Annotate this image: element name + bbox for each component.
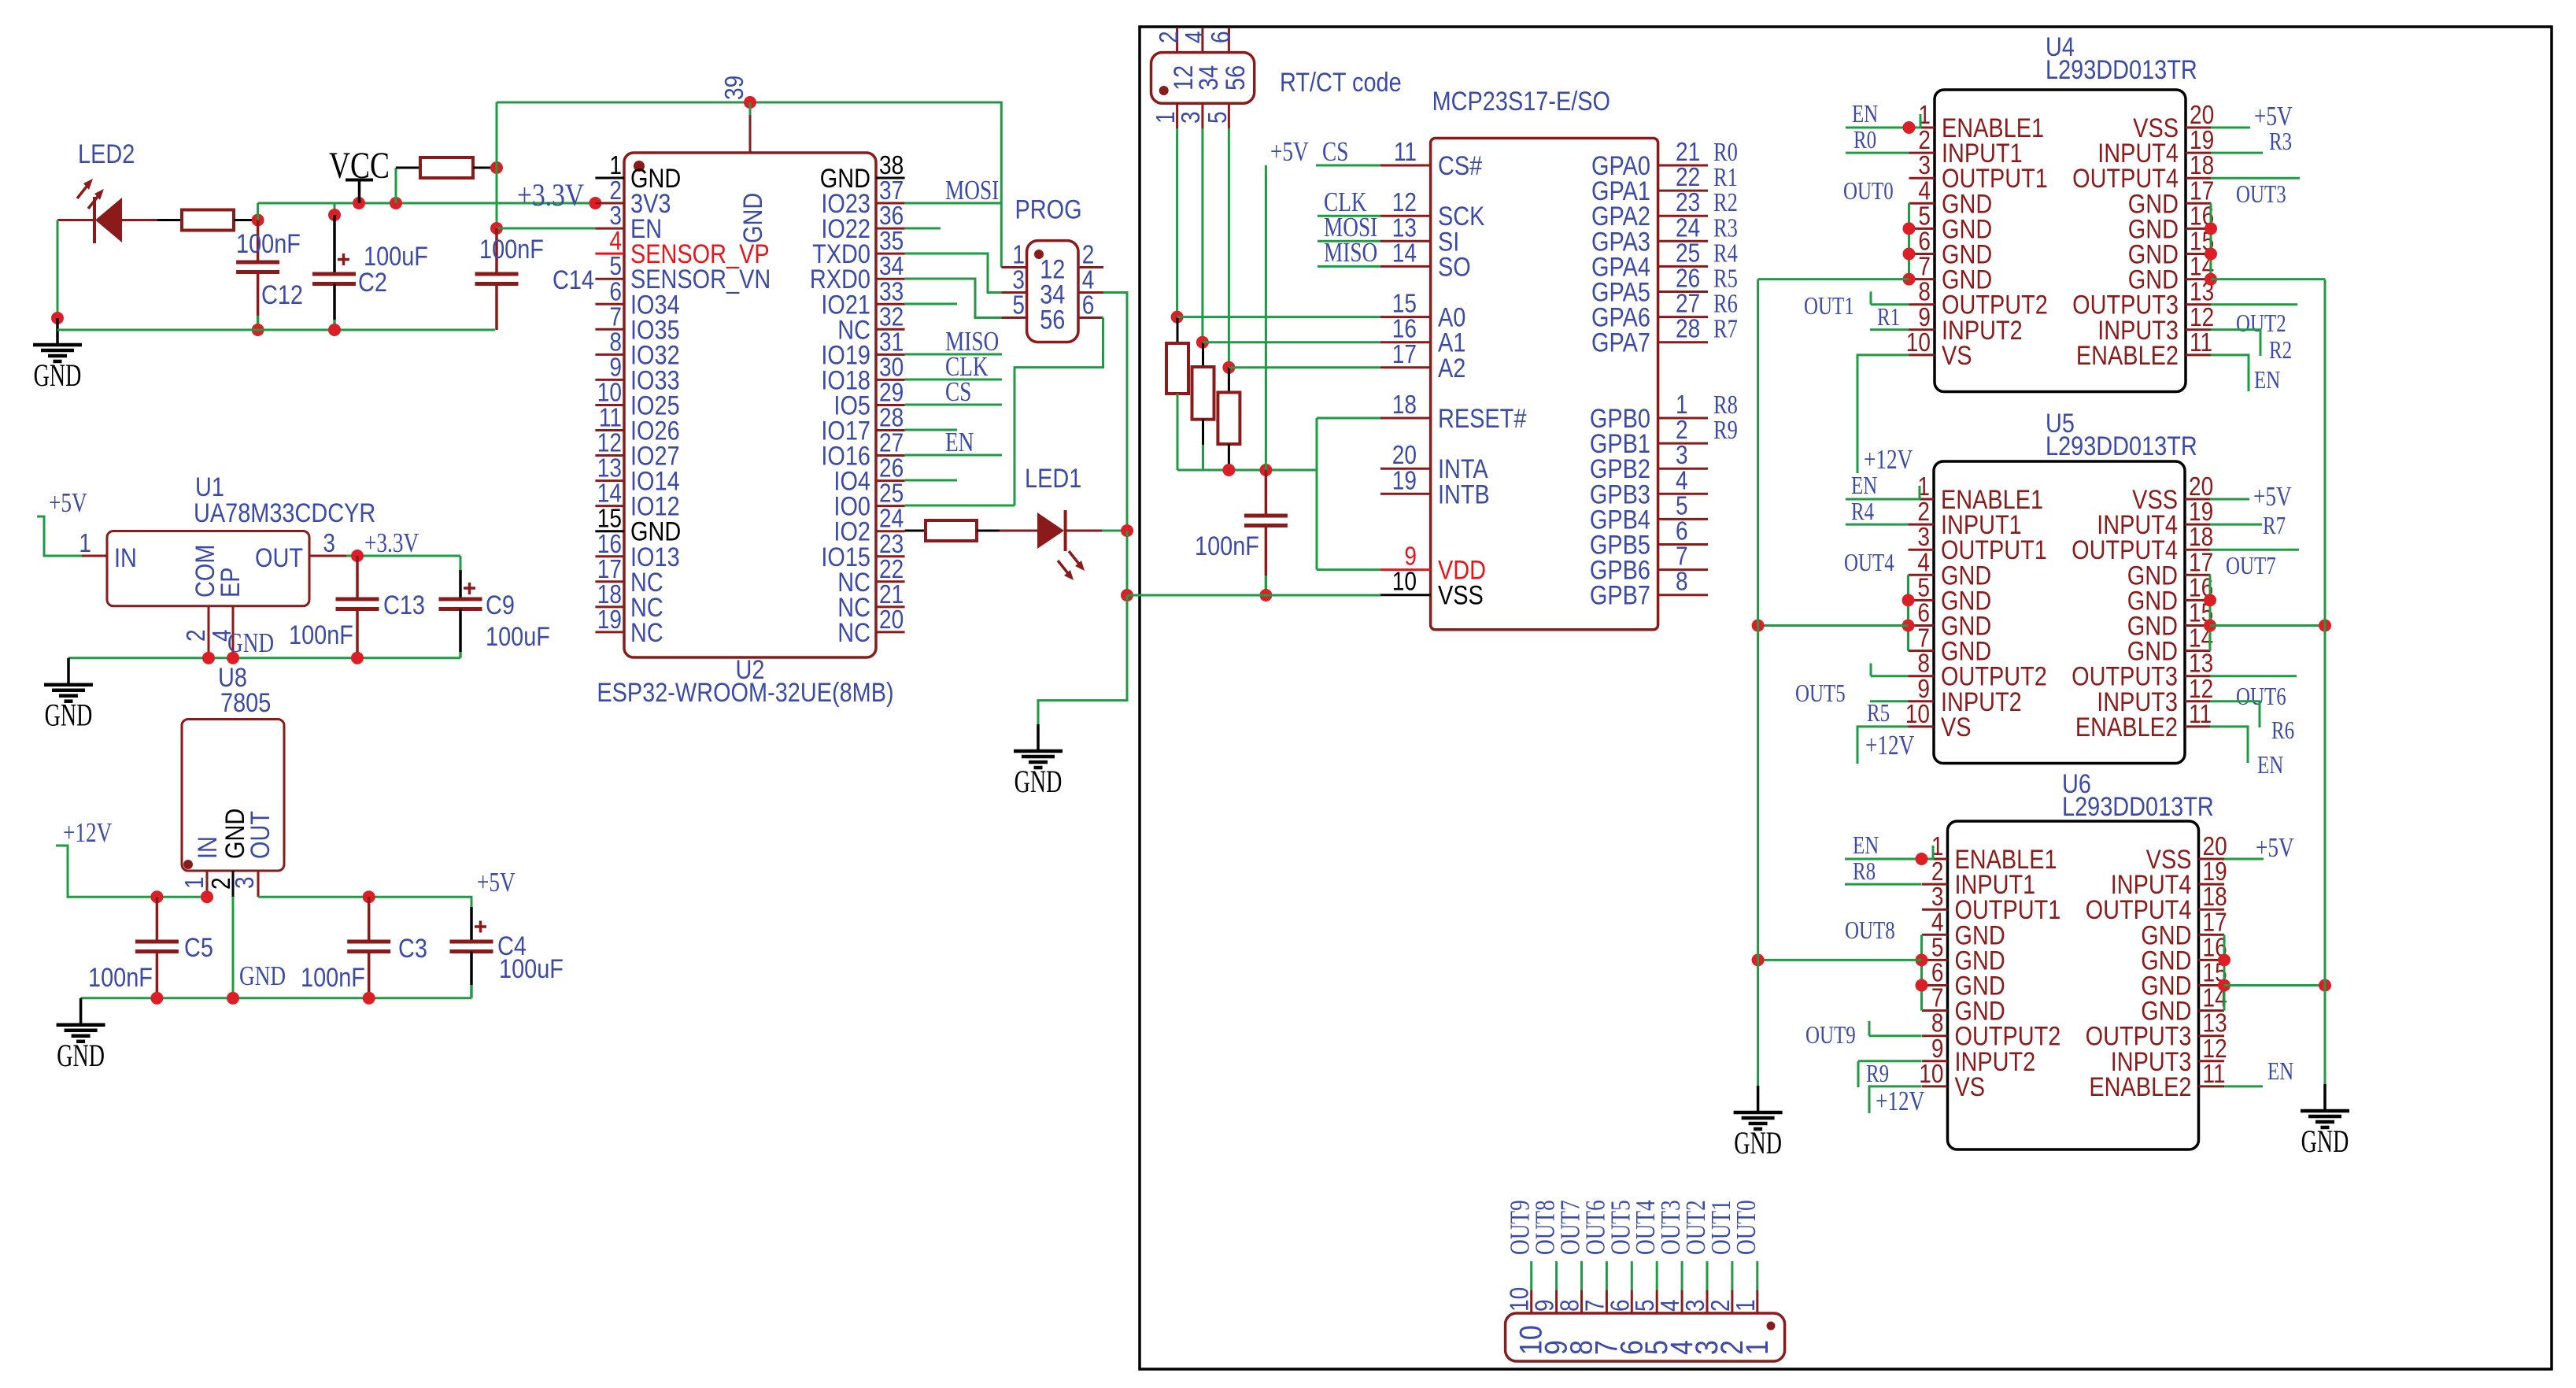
wire +5V vertical (1265, 165, 1267, 470)
U5 left pin names (1941, 484, 2047, 742)
svg-text:+12V: +12V (1876, 1086, 1925, 1116)
wire OUT1 to U4 pin8 (1871, 291, 1909, 304)
svg-text:GND: GND (1015, 764, 1063, 799)
svg-text:100nF: 100nF (1195, 531, 1259, 561)
wire LED2 cathode to resistor (122, 219, 182, 221)
svg-text:3: 3 (323, 529, 335, 558)
wire U6 ground pins 4-7 (1920, 935, 1923, 1010)
svg-text:L293DD013TR: L293DD013TR (2046, 431, 2197, 461)
IC U5 L293DD013TR body (1934, 461, 2185, 764)
svg-text:R0: R0 (1853, 126, 1876, 154)
wire OUT2 to U4 pin13 (2211, 303, 2297, 305)
wire A0 (1177, 316, 1380, 318)
U5 right pin names (2072, 484, 2178, 742)
svg-text:CS: CS (945, 376, 971, 407)
P1 pin numbers 2,4,6 (1155, 31, 1236, 43)
svg-text:+12V: +12V (63, 817, 113, 848)
wire R3 to U4 pin19 (2211, 152, 2263, 154)
U3 right pin numbers (1676, 138, 1700, 596)
U6 right pin names (2086, 844, 2192, 1102)
wire U5 gnd to right bus (2210, 624, 2325, 627)
P1 bottom pin stubs (1177, 103, 1229, 128)
wire +5V to U4 pin20 (VSS) (2211, 127, 2250, 129)
junction U4 pin14 (2205, 273, 2217, 286)
U3 right pin names GPA0-GPA7 GPB0-GPB7 (1590, 150, 1650, 610)
capacitor C9 wire (460, 556, 462, 599)
wire GND rail (left) (57, 329, 495, 331)
svg-text:C9: C9 (486, 590, 515, 620)
capacitor C5 (135, 897, 179, 998)
svg-text:10: 10 (1906, 328, 1931, 357)
capacitor C12 (236, 220, 279, 316)
wire R1 to U4 pin9 (1870, 328, 1909, 331)
U3 left pin names (1438, 150, 1527, 610)
wire R6 to U5 pin12 (2210, 701, 2260, 727)
wire VCC resistor to top net (473, 167, 497, 169)
junction VSS net (1121, 589, 1133, 601)
svg-text:GND: GND (1734, 1126, 1782, 1160)
junction A2/resistor (1222, 361, 1235, 374)
svg-text:LED2: LED2 (78, 139, 135, 169)
svg-text:EN: EN (1852, 100, 1879, 128)
wire EN to U4 pin11 (2211, 355, 2249, 391)
PROG pin1 marker (1034, 250, 1044, 259)
junction C2 to GND rail (328, 324, 341, 336)
wire U8 ground rail (81, 997, 471, 999)
capacitor C4 polarity + (475, 921, 486, 933)
connector P2 body (1506, 1313, 1785, 1361)
svg-text:5: 5 (1203, 111, 1233, 124)
capacitor C9 polarity + (464, 583, 475, 594)
svg-text:+5V: +5V (2253, 481, 2292, 512)
wire +5V to U5 pin20 (VSS) (2210, 498, 2249, 501)
wire top GND net horizontal (497, 102, 1001, 268)
PROG pad labels 12,34,56 (1040, 254, 1065, 335)
wire MISO (U2 pin31) (905, 353, 1002, 356)
svg-text:19: 19 (1392, 466, 1417, 495)
wire OUT6 to U5 pin13 (2210, 675, 2297, 677)
wire +12V to U4 pin10 (VS) (1857, 355, 1909, 473)
capacitor C13 (336, 556, 379, 658)
wire +12V to U5 pin10 (VS) (1857, 727, 1909, 764)
junction U6 pin15 (2218, 979, 2230, 992)
net labels R0-R7 (1713, 137, 1738, 344)
U3 left pin stubs (1380, 165, 1431, 595)
junction U6 pin16 (2218, 953, 2230, 966)
PROG left pin stubs (1001, 268, 1026, 318)
P2 pin1 marker (1767, 1322, 1776, 1331)
U4 right pin stubs (2186, 128, 2212, 355)
U4 right pin names (2072, 113, 2179, 371)
svg-text:VS: VS (1941, 712, 1972, 742)
svg-text:100uF: 100uF (499, 953, 564, 984)
svg-text:34: 34 (1193, 65, 1224, 91)
IC U6 L293DD013TR body (1948, 821, 2199, 1149)
wire node riser to +3.3V rail (257, 203, 259, 220)
wire MOSI to U3 pin13 (1318, 240, 1380, 242)
svg-text:20: 20 (879, 605, 904, 635)
svg-text:R2: R2 (2269, 336, 2292, 365)
LED D1 (LED1) diode symbol (1037, 510, 1085, 580)
wire R9 to U6 pin9 (1858, 1061, 1922, 1087)
junction U1 pin4 to rail (227, 652, 239, 664)
capacitor C4 (450, 907, 493, 998)
wire EN to U5 pin1 (1846, 486, 1920, 499)
P1 top pin stubs (1177, 28, 1229, 53)
junction U5 pin6 (1902, 620, 1915, 632)
wire U2 pin26 (905, 479, 957, 482)
LED D2 (LED2) diode symbol (77, 179, 122, 243)
svg-text:SO: SO (1438, 251, 1471, 282)
svg-text:ENABLE2: ENABLE2 (2076, 340, 2179, 371)
junction resistor/C12 node (252, 214, 264, 227)
svg-text:EP: EP (215, 567, 246, 598)
svg-text:10: 10 (1392, 568, 1417, 597)
svg-text:EN: EN (1851, 472, 1878, 500)
capacitor C3 (347, 897, 390, 998)
svg-text:+3.3V: +3.3V (364, 527, 419, 558)
svg-text:100nF: 100nF (88, 962, 153, 993)
svg-text:R1: R1 (1877, 303, 1900, 331)
wire R7 to U5 pin19 (2210, 524, 2262, 526)
svg-text:OUT9: OUT9 (1805, 1021, 1856, 1049)
svg-text:CS#: CS# (1438, 150, 1483, 181)
wire U2 pin28 (905, 429, 957, 431)
wire +5V to U6 pin20 (VSS) (2224, 858, 2264, 861)
wire CLK (U2 pin30) (905, 379, 1002, 381)
ground symbol (U1) (44, 658, 93, 733)
junction +5V/cap on bus (1259, 464, 1272, 476)
wire OUT9 to U6 pin8 (1869, 1021, 1922, 1036)
junction right bus at U5 (2319, 620, 2331, 632)
svg-text:VSS: VSS (1438, 579, 1484, 610)
wire EN (U2 pin27) (905, 454, 1002, 457)
svg-text:R8: R8 (1853, 857, 1876, 886)
svg-text:VS: VS (1955, 1072, 1986, 1102)
svg-text:100uF: 100uF (486, 621, 550, 652)
capacitor 100nF (MCP decoupling) (1244, 470, 1288, 576)
wire U4 gnd to left bus (1758, 278, 1909, 280)
U4 left pin names (1942, 113, 2048, 371)
U6 pin numbers 1-10 (1919, 832, 1943, 1089)
wire top GND net vertical (496, 102, 498, 228)
svg-text:CS: CS (1322, 136, 1348, 167)
U2 left pin stubs (595, 178, 624, 632)
svg-text:18: 18 (1392, 390, 1417, 420)
svg-text:OUT0: OUT0 (1843, 177, 1894, 205)
svg-text:11: 11 (2190, 328, 2212, 357)
wire U5 gnd to left bus (1758, 624, 1909, 627)
wire MOSI (U2 pin37) (905, 202, 1002, 205)
wire U6 gnd to left bus (1758, 959, 1922, 961)
U8 pin2 stub and wire to ground rail (232, 871, 235, 998)
svg-text:+5V: +5V (49, 487, 87, 518)
wire CS (U2 pin29) (905, 404, 1002, 406)
svg-text:R9: R9 (1713, 415, 1738, 445)
svg-text:7805: 7805 (220, 687, 271, 718)
svg-text:11: 11 (1394, 138, 1417, 167)
U5 left pin stubs (1909, 499, 1935, 727)
wire CLK to U3 pin12 (1318, 215, 1380, 217)
svg-text:EN: EN (945, 427, 974, 457)
U4 pin numbers 20-11 (2190, 101, 2214, 357)
svg-text:C3: C3 (398, 933, 427, 964)
junction U8 pin2 bottom (227, 992, 239, 1005)
junction U1 pin2 to rail (202, 652, 215, 664)
wire P1 pin3 to A1 (1201, 128, 1203, 342)
wire P1 pin1 to A0 (1176, 128, 1178, 316)
resistor (A2 pulldown) (1218, 368, 1240, 470)
wire U5 ground pins 4-7 (1907, 575, 1909, 650)
wire CS to U3 pin11 (1316, 165, 1380, 167)
wire R0 to U4 pin2 (1846, 152, 1909, 154)
U2 pin 39 stub (749, 102, 752, 153)
svg-text:VS: VS (1942, 340, 1972, 371)
junction C5 top (150, 890, 163, 903)
svg-text:28: 28 (1676, 315, 1700, 344)
U5 pin numbers 1-10 (1905, 472, 1930, 729)
svg-text:2: 2 (182, 629, 211, 642)
junction U6 pin5 (1916, 953, 1928, 966)
wire R2 to U4 pin12 (2211, 330, 2260, 356)
ground symbol (LED2) (33, 318, 82, 393)
svg-text:+5V: +5V (2254, 101, 2293, 131)
svg-text:C2: C2 (358, 267, 387, 298)
svg-text:GPB7: GPB7 (1590, 579, 1650, 610)
svg-text:100nF: 100nF (289, 620, 353, 650)
svg-text:11: 11 (2189, 700, 2212, 729)
U5 right pin stubs (2185, 499, 2211, 727)
wire OUT7 to U5 pin18 (2210, 549, 2299, 551)
wire +5V to U1 pin1 (37, 516, 107, 556)
U8 pin3 stub (257, 871, 260, 897)
junction LED1/PROG4 node (1121, 524, 1133, 537)
svg-text:6: 6 (1207, 31, 1236, 43)
wire IO0 U2 pin25 to PROG pin6 (905, 505, 1015, 507)
junction U4 pin1 (1903, 121, 1916, 134)
svg-text:GPA7: GPA7 (1591, 327, 1650, 357)
svg-text:6: 6 (1082, 291, 1095, 320)
junction U5 pin16 (2204, 594, 2216, 606)
PROG pin numbers 2,4,6 (1082, 240, 1095, 320)
net labels OUT9..OUT0 (P2) (1504, 1200, 1761, 1255)
U1 pins 2,4 stubs (209, 606, 233, 658)
svg-text:56: 56 (1220, 65, 1251, 91)
svg-text:OUT1: OUT1 (1804, 292, 1854, 320)
wire lead to VCC resistor (396, 167, 420, 169)
svg-text:1: 1 (1739, 1340, 1774, 1355)
svg-text:EN: EN (2254, 366, 2281, 394)
wire +5V output rail (258, 897, 471, 907)
svg-text:NC: NC (837, 617, 870, 648)
resistor (LED1 series) (926, 520, 977, 541)
svg-text:C12: C12 (261, 279, 303, 310)
svg-text:EN: EN (2267, 1057, 2294, 1086)
resistor (A1 pulldown) (1192, 342, 1214, 470)
wire U2 pin33 (905, 303, 957, 305)
junction C5 bottom (150, 992, 163, 1005)
svg-text:1: 1 (1732, 1299, 1761, 1312)
svg-text:5: 5 (1012, 291, 1025, 320)
resistor (A0 pulldown) (1166, 317, 1188, 470)
svg-text:MCP23S17-E/SO: MCP23S17-E/SO (1432, 86, 1610, 117)
junction at U2 pin2 (589, 197, 601, 209)
power flag VCC (329, 146, 390, 203)
wire resistor to node (234, 219, 258, 221)
svg-text:A2: A2 (1438, 353, 1465, 383)
junction resistor riser on +3.3V rail (390, 197, 402, 209)
capacitor C2 top wire (328, 203, 341, 274)
U6 pin numbers 20-11 (2203, 832, 2227, 1089)
junction left bus at U6 (1752, 953, 1765, 966)
svg-text:R5: R5 (1867, 699, 1890, 727)
junction U1 out / C13 (351, 550, 364, 562)
svg-text:OUT: OUT (255, 542, 303, 573)
svg-text:RESET#: RESET# (1438, 403, 1527, 434)
svg-text:R6: R6 (2271, 716, 2294, 745)
wire TXD0 U2 pin35 to PROG pin3 (905, 254, 1002, 293)
wire OUT5 to U5 pin8 (1871, 663, 1909, 675)
wire LED1 node down to VSS net (1126, 531, 1129, 595)
svg-text:56: 56 (1040, 304, 1065, 335)
svg-text:OUT7: OUT7 (2226, 552, 2276, 580)
svg-text:EN: EN (2257, 751, 2284, 779)
U6 left pin names (1955, 844, 2061, 1102)
svg-text:LED1: LED1 (1025, 463, 1081, 494)
svg-text:2: 2 (1155, 31, 1184, 43)
resistor (LED2 series) (182, 210, 234, 231)
P2 pin stubs (1532, 1261, 1757, 1313)
svg-text:INTB: INTB (1438, 479, 1490, 509)
svg-text:1: 1 (180, 876, 209, 889)
IC U3 MCP23S17 body (1431, 139, 1658, 630)
U8 pin1 stub (206, 871, 209, 897)
U4 left pin stubs (1909, 128, 1935, 355)
wire EN to U6 pin11 (2224, 1085, 2263, 1087)
voltage regulator U8 (182, 720, 284, 872)
wire EN to U4 pin1 (1846, 114, 1921, 128)
ground symbol (left bus) (1734, 1086, 1783, 1160)
PROG right pin stubs (1078, 268, 1103, 318)
svg-text:+12V: +12V (1865, 730, 1915, 761)
svg-text:+5V: +5V (1270, 136, 1309, 167)
svg-text:OUT5: OUT5 (1795, 679, 1846, 708)
U6 right pin stubs (2199, 859, 2225, 1086)
svg-text:8: 8 (1676, 568, 1688, 597)
wire EN to U5 pin11 (2210, 727, 2248, 763)
wire left ground bus vertical (1757, 279, 1759, 1086)
junction VCC stem on +3.3V rail (353, 197, 365, 209)
svg-text:GND: GND (57, 1038, 105, 1073)
svg-text:100nF: 100nF (479, 234, 544, 265)
wire PROG pin4 to LED1 node (1103, 293, 1127, 531)
svg-text:1: 1 (79, 529, 91, 558)
ground symbol (right bus) (2301, 1084, 2349, 1159)
wire OUT3 to U4 pin18 (2211, 177, 2300, 180)
U2 right pin names (810, 163, 870, 648)
svg-text:IN: IN (192, 836, 223, 859)
wire PROG pin6 to IO0 (1015, 318, 1103, 506)
U2 right pin stubs (876, 178, 905, 632)
voltage regulator U1 (107, 531, 309, 606)
svg-text:MOSI: MOSI (945, 175, 999, 205)
svg-text:C14: C14 (553, 265, 594, 295)
U2 pin1 orientation marker (634, 161, 645, 172)
junction C3 top (363, 890, 375, 903)
svg-text:+5V: +5V (477, 867, 516, 898)
junction U8 pin1 (201, 890, 213, 903)
svg-text:R3: R3 (2269, 128, 2292, 156)
svg-text:IN: IN (114, 542, 137, 573)
wire U6 gnd to right bus (2224, 984, 2325, 986)
wire EN to U2 pin3 (497, 228, 595, 230)
svg-text:GND: GND (34, 358, 82, 393)
svg-text:R7: R7 (1713, 314, 1738, 344)
P2 pin numbers above (10..1) (1506, 1287, 1761, 1312)
U2 left pin names (630, 163, 771, 648)
svg-text:OUT0: OUT0 (1731, 1200, 1761, 1255)
U5 pin numbers 20-11 (2189, 472, 2213, 729)
svg-text:100nF: 100nF (301, 962, 365, 993)
capacitor C9 (439, 599, 482, 658)
junction A0/resistor (1171, 311, 1184, 324)
wire P1 pin5 to A2 (1228, 128, 1230, 367)
junction U5 pin5 (1902, 594, 1915, 606)
wire VSS net to GND symbol (1038, 595, 1127, 724)
PROG pin numbers 1,3,5 (1012, 240, 1025, 320)
svg-text:C13: C13 (383, 590, 425, 620)
P1 pin1 marker (1159, 86, 1169, 95)
wire U2 pin36 (905, 228, 941, 230)
U3 left pin numbers (1392, 138, 1417, 596)
junction U4 pin15 (2205, 248, 2217, 261)
wire right ground bus vertical (2324, 279, 2327, 1084)
wire R8 to U6 pin2 (1845, 883, 1922, 886)
connector P1 (RT/CT) body (1151, 53, 1255, 104)
connector PROG body (1027, 241, 1078, 342)
resistor (VCC pullup) (420, 157, 473, 178)
capacitor C14 (475, 228, 519, 330)
junction top net at U2 pin39 (744, 96, 756, 109)
junction A2 resistor on bus (1222, 464, 1235, 476)
junction C3 bottom (363, 992, 375, 1005)
svg-text:3: 3 (1177, 111, 1206, 124)
P1 pin numbers 1,3,5 (1151, 111, 1233, 124)
U2 pin numbers 1-19 (597, 151, 622, 635)
svg-text:GND: GND (239, 960, 286, 991)
junction U6 pin6 (1916, 979, 1928, 992)
junction EN node / C14 top (490, 222, 503, 235)
junction A1/resistor (1196, 336, 1209, 349)
wire resistor to LED1 (977, 530, 1037, 532)
U4 pin numbers 1-10 (1906, 101, 1931, 357)
svg-text:GND: GND (737, 193, 768, 243)
wire RESET# / VDD riser (1317, 418, 1380, 570)
svg-text:17: 17 (1392, 340, 1417, 369)
wire +3.3V rail (258, 202, 596, 205)
junction resistor to vertical net (490, 161, 503, 174)
P1 pad labels 12,34,56 (1168, 65, 1251, 91)
svg-text:ENABLE2: ENABLE2 (2075, 712, 2178, 742)
svg-text:R7: R7 (2263, 512, 2286, 540)
svg-text:UA78M33CDCYR: UA78M33CDCYR (194, 498, 375, 528)
svg-text:OUT8: OUT8 (1845, 916, 1895, 945)
svg-text:+3.3V: +3.3V (517, 177, 584, 212)
svg-text:OUT4: OUT4 (1844, 549, 1894, 577)
svg-text:ENABLE2: ENABLE2 (2089, 1072, 2191, 1102)
wire MISO to U3 pin14 (1318, 265, 1380, 268)
svg-text:EN: EN (1853, 831, 1879, 860)
